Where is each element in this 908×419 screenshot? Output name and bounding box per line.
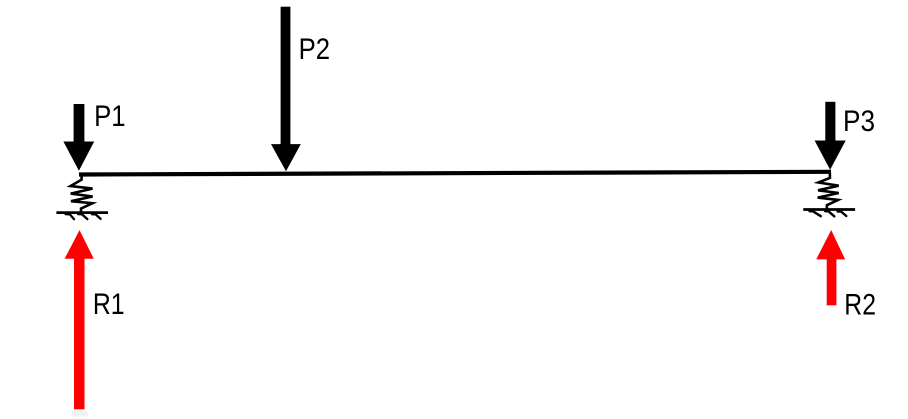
force arrow P2: [271, 7, 301, 172]
ground line right: [803, 208, 855, 211]
spring right support: [818, 174, 839, 211]
ground hatch left 2: [78, 214, 87, 219]
reaction arrow R2: [816, 230, 845, 305]
svg-text:P1: P1: [94, 100, 126, 133]
spring left support: [71, 176, 93, 214]
ground hatch right 2: [825, 211, 834, 216]
faint ghost mark below R1: [72, 411, 89, 417]
force arrow P1: [63, 104, 94, 171]
beam: [79, 172, 831, 175]
ground hatch left 3: [92, 214, 101, 219]
svg-text:R1: R1: [93, 288, 125, 321]
svg-text:P2: P2: [299, 33, 330, 66]
svg-text:R2: R2: [844, 289, 876, 322]
ground line left: [56, 211, 108, 214]
force arrow P3: [815, 102, 846, 170]
svg-text:P3: P3: [843, 105, 875, 138]
ground hatch left 1: [66, 214, 75, 219]
reaction arrow R1: [65, 230, 94, 409]
ground hatch right 3: [838, 211, 847, 216]
ground hatch right 1: [810, 211, 821, 216]
